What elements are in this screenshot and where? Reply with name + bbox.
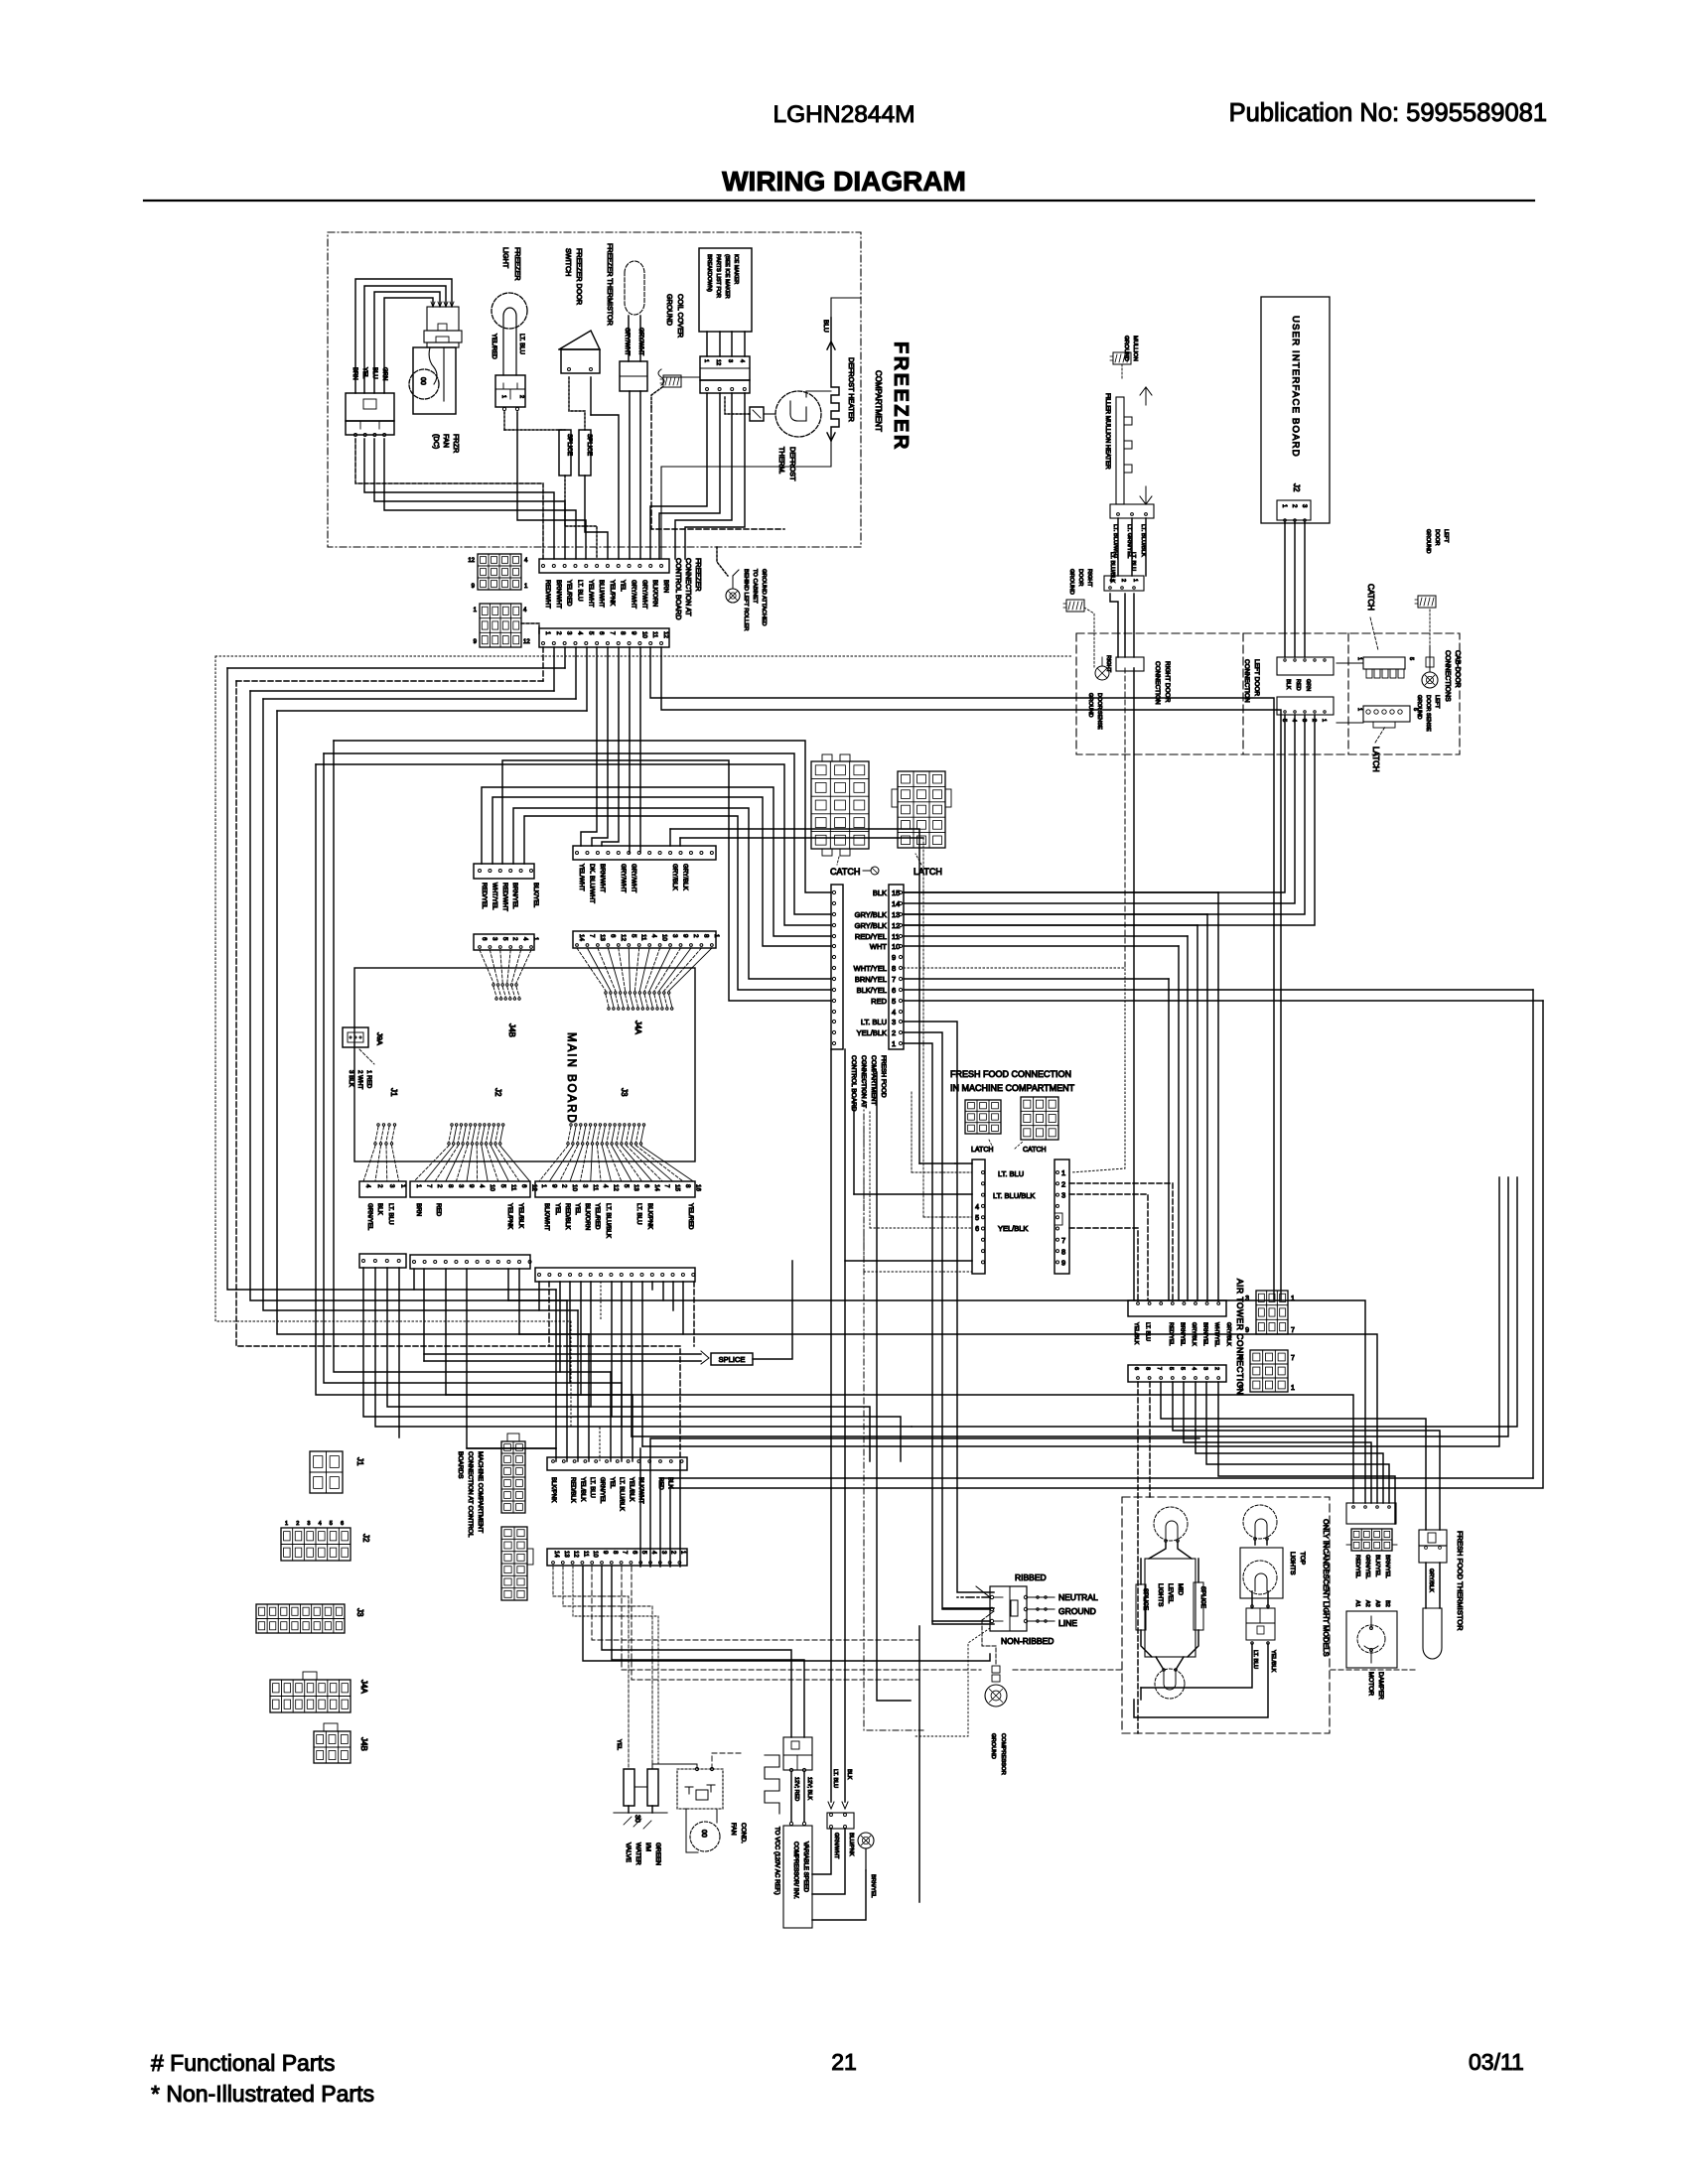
wires J1 lower strip down (363, 1268, 901, 1461)
J4A number strip (573, 931, 716, 948)
svg-text:ONLY INCANDESCENT LIGHT MODELS: ONLY INCANDESCENT LIGHT MODELS (1322, 1519, 1331, 1657)
damper motor box (1346, 1611, 1397, 1668)
svg-text:6: 6 (520, 1184, 527, 1188)
coil cover ground symbol (663, 375, 681, 387)
svg-text:RED/YEL: RED/YEL (1354, 1555, 1360, 1578)
J9A dashed link (359, 1049, 374, 1064)
mullion heater arrows (1140, 387, 1152, 395)
svg-text:13: 13 (892, 910, 900, 919)
svg-text:YEL: YEL (609, 1477, 615, 1489)
compressor 12V connector (783, 1737, 812, 1770)
svg-text:12: 12 (468, 558, 475, 564)
svg-text:RIGHT DOOR: RIGHT DOOR (1164, 661, 1171, 703)
svg-text:YEL/PNK: YEL/PNK (609, 580, 616, 607)
svg-text:LT. BLU/BLK: LT. BLU/BLK (605, 1203, 612, 1239)
svg-text:6: 6 (975, 1226, 979, 1233)
svg-text:CAB-DOOR: CAB-DOOR (1454, 650, 1461, 688)
svg-text:1: 1 (285, 1521, 288, 1527)
svg-text:YEL/WHT: YEL/WHT (587, 580, 594, 608)
svg-text:LEFT DOOR: LEFT DOOR (1253, 659, 1260, 696)
mid lamp top (1154, 1507, 1188, 1541)
freezer splice box 1 (559, 430, 571, 476)
svg-text:YEL/RED: YEL/RED (687, 1203, 694, 1230)
mullion ground dashed wire (1121, 364, 1123, 379)
svg-text:6: 6 (1133, 1367, 1139, 1370)
svg-text:2: 2 (518, 395, 524, 398)
svg-text:7: 7 (609, 631, 616, 635)
svg-text:GRN/YEL: GRN/YEL (599, 1477, 605, 1504)
svg-text:WHT/YEL: WHT/YEL (1213, 1322, 1219, 1346)
svg-text:2: 2 (511, 937, 518, 941)
svg-text:WHT/YEL: WHT/YEL (854, 964, 887, 973)
svg-text:THERM.: THERM. (777, 447, 786, 475)
svg-text:YEL: YEL (554, 1203, 561, 1215)
svg-text:7: 7 (892, 975, 896, 984)
svg-text:5: 5 (630, 934, 636, 938)
svg-text:BLU: BLU (822, 320, 829, 333)
svg-text:2: 2 (692, 934, 699, 938)
svg-text:GROUND: GROUND (1087, 693, 1093, 717)
svg-text:11: 11 (509, 1184, 516, 1191)
right-going band wires (912, 1177, 1517, 1427)
svg-text:3: 3 (1301, 719, 1307, 722)
machine compartment vertical grid connector A (501, 1441, 525, 1513)
svg-text:LIGHTS: LIGHTS (1157, 1583, 1164, 1607)
svg-text:SWITCH: SWITCH (564, 248, 573, 276)
svg-text:FRESH FOOD: FRESH FOOD (880, 1055, 887, 1098)
svg-text:9: 9 (1245, 1327, 1249, 1334)
svg-text:00: 00 (700, 1830, 707, 1838)
svg-text:11: 11 (892, 932, 900, 941)
svg-text:BRN/YEL: BRN/YEL (1179, 1322, 1185, 1346)
svg-text:BLK/ORN: BLK/ORN (584, 1203, 591, 1230)
wires freezer fan down to control strip (355, 439, 543, 559)
svg-text:14: 14 (653, 1184, 660, 1191)
svg-text:J4A: J4A (633, 1021, 642, 1034)
svg-text:J3: J3 (620, 1088, 629, 1097)
air tower grid connector upper (1256, 1291, 1288, 1334)
svg-text:BLK: BLK (873, 888, 887, 897)
svg-text:COIL COVER: COIL COVER (676, 294, 685, 338)
J4B header pins row 1 (492, 984, 494, 986)
arrowheads into compressor box (828, 1802, 834, 1809)
svg-text:9: 9 (1061, 1259, 1065, 1268)
svg-text:MAIN BOARD: MAIN BOARD (565, 1032, 577, 1125)
svg-text:RED/WHT: RED/WHT (544, 580, 551, 609)
J4B upper strip 6-pin (474, 864, 534, 879)
svg-text:IN MACHINE COMPARTMENT: IN MACHINE COMPARTMENT (950, 1083, 1075, 1093)
svg-text:1: 1 (400, 1184, 407, 1188)
svg-text:RED: RED (871, 997, 887, 1006)
svg-text:3: 3 (727, 359, 733, 362)
title rule (144, 200, 1534, 202)
svg-text:12: 12 (620, 934, 627, 941)
fresh food thermistor bulb (1423, 1608, 1442, 1659)
svg-text:NON-RIBBED: NON-RIBBED (1001, 1636, 1054, 1646)
wire from splice down area (853, 1102, 855, 1194)
svg-text:GRY/WHT: GRY/WHT (620, 864, 627, 892)
svg-text:13: 13 (599, 934, 606, 941)
fresh food pin3 pin2 down (904, 1022, 994, 1592)
svg-text:YEL/BLK: YEL/BLK (517, 1203, 524, 1229)
svg-text:8: 8 (447, 1184, 454, 1188)
svg-text:GRN/WHT: GRN/WHT (833, 1833, 839, 1859)
svg-text:CONNECTION: CONNECTION (1154, 661, 1161, 705)
svg-text:11: 11 (592, 1184, 599, 1191)
J1 lower strip (359, 1254, 406, 1268)
wire grid B to strip (521, 623, 539, 635)
svg-text:1: 1 (544, 631, 551, 635)
svg-text:GREEN: GREEN (654, 1843, 661, 1865)
wires below air tower (1137, 1382, 1139, 1733)
lights connector strip (1346, 1503, 1396, 1524)
left door connection upper block (1277, 657, 1334, 675)
svg-text:# Functional Parts: # Functional Parts (151, 2050, 335, 2076)
freezer fan connector lower part (346, 421, 394, 435)
freezer thermistor connector (620, 361, 647, 391)
svg-text:YEL: YEL (574, 1203, 581, 1215)
svg-text:BRN/YEL: BRN/YEL (855, 975, 887, 984)
svg-text:A3: A3 (1374, 1600, 1380, 1607)
svg-text:A1: A1 (1354, 1600, 1360, 1607)
svg-text:4: 4 (1291, 719, 1297, 722)
svg-text:J2: J2 (493, 1088, 502, 1097)
svg-text:8: 8 (1145, 1367, 1151, 1370)
svg-text:7: 7 (588, 934, 595, 938)
mullion heater connector (1110, 504, 1154, 518)
lights dashed box (1122, 1497, 1330, 1733)
svg-text:BLU/WHT: BLU/WHT (598, 580, 605, 608)
cab-door catch 5-pin connector (1363, 657, 1405, 669)
svg-text:SPLICE: SPLICE (1142, 1588, 1149, 1610)
user interface board box (1261, 297, 1330, 523)
svg-text:CONNECTION AT CONTROL: CONNECTION AT CONTROL (467, 1451, 474, 1538)
svg-text:1: 1 (1356, 708, 1362, 711)
wire long right y1499 (670, 1001, 1543, 1488)
svg-text:2: 2 (892, 1028, 896, 1037)
svg-text:SPLICE: SPLICE (566, 434, 573, 456)
mid lights bottom funnel (1156, 1657, 1164, 1670)
svg-text:GRY/BLK: GRY/BLK (671, 864, 678, 891)
J1 header pins (377, 1124, 379, 1126)
svg-text:LATCH: LATCH (1371, 747, 1380, 772)
svg-text:FREEZER DOOR: FREEZER DOOR (575, 248, 584, 305)
J1 header hooks (375, 1127, 378, 1142)
main board outline (354, 968, 695, 1161)
svg-text:2: 2 (561, 1184, 568, 1188)
svg-text:GRY/BLK: GRY/BLK (855, 921, 887, 930)
svg-text:J1: J1 (389, 1088, 398, 1097)
cab-door divider 1 (1242, 633, 1244, 754)
svg-text:BLU/PNK: BLU/PNK (848, 1833, 854, 1856)
svg-text:J4B: J4B (507, 1024, 516, 1037)
freezer light circle (492, 293, 527, 329)
svg-text:6: 6 (643, 1184, 650, 1188)
svg-text:11: 11 (582, 1551, 588, 1558)
J3 header pins (570, 1124, 572, 1126)
svg-text:TOP: TOP (1299, 1552, 1306, 1565)
machine compartment J4A grid (270, 1680, 351, 1712)
svg-text:YEL/PNK: YEL/PNK (506, 1203, 513, 1230)
splice output wire (753, 1261, 792, 1359)
left bus dotted wire (215, 655, 1072, 657)
svg-text:5: 5 (1179, 1367, 1185, 1370)
svg-text:7: 7 (1291, 1327, 1295, 1334)
machine connection number strip (547, 1549, 687, 1566)
svg-text:BLK: BLK (376, 1203, 383, 1216)
svg-text:RED/YEL: RED/YEL (1168, 1322, 1174, 1346)
svg-text:BREAKDOWN): BREAKDOWN) (706, 254, 712, 292)
lights grid connector (1351, 1529, 1392, 1551)
svg-text:BLK: BLK (846, 1769, 852, 1780)
fresh food machine latch grid (965, 1100, 1001, 1134)
svg-text:8: 8 (1061, 1247, 1065, 1256)
svg-text:BLK/YEL: BLK/YEL (532, 883, 539, 908)
svg-text:LT. BLU: LT. BLU (1145, 1322, 1151, 1341)
svg-text:00: 00 (419, 377, 426, 385)
svg-text:6: 6 (481, 937, 488, 941)
machine compartment J2 grid (281, 1528, 351, 1561)
left bus staircase wire 7 (316, 764, 633, 1395)
svg-text:15: 15 (892, 888, 900, 897)
wires compressor box bottom (812, 1829, 831, 1874)
svg-text:J9A: J9A (375, 1032, 384, 1045)
J4B number strip (474, 934, 534, 950)
svg-text:14: 14 (578, 934, 585, 941)
svg-text:3: 3 (566, 631, 573, 635)
svg-text:BLK/ORN: BLK/ORN (651, 580, 658, 607)
air tower lower strip (1128, 1365, 1226, 1382)
svg-text:CONTROL BOARD: CONTROL BOARD (674, 558, 683, 619)
cond fan motor circle (690, 1822, 720, 1851)
wires 3-pin connector down (1110, 594, 1118, 657)
svg-text:RED: RED (1295, 679, 1301, 691)
svg-text:COMPARTMENT: COMPARTMENT (874, 370, 883, 432)
svg-text:RIBBED: RIBBED (1015, 1572, 1047, 1582)
svg-text:A2: A2 (1364, 1600, 1370, 1607)
freezer light connector (495, 375, 525, 407)
splice left box (1136, 1584, 1146, 1630)
svg-text:2: 2 (1061, 1179, 1065, 1188)
svg-text:GRN/YEL: GRN/YEL (1364, 1555, 1370, 1578)
svg-text:LT. BLU: LT. BLU (861, 1018, 887, 1026)
svg-text:5: 5 (587, 631, 594, 635)
J2 number strip (410, 1181, 530, 1197)
svg-text:LT. BLU: LT. BLU (832, 1769, 838, 1788)
svg-text:3: 3 (491, 937, 497, 941)
plug dotted curl wire (915, 1628, 990, 1736)
svg-text:COMPRESSOR: COMPRESSOR (1000, 1733, 1006, 1775)
svg-text:Publication No: 5995589081: Publication No: 5995589081 (1229, 99, 1547, 127)
left bus staircase wire 5 (334, 741, 611, 1372)
fresh food dashed line pin8 (904, 968, 1125, 1172)
svg-text:RED/WHT: RED/WHT (501, 883, 508, 911)
svg-text:YEL/BLK: YEL/BLK (857, 1028, 887, 1037)
svg-text:BEHIND LEFT ROLLER: BEHIND LEFT ROLLER (743, 569, 749, 630)
svg-text:16: 16 (694, 1184, 701, 1191)
J2 header hooks (449, 1127, 452, 1142)
3-pin connector above right door box (1104, 576, 1144, 591)
svg-text:4: 4 (479, 1184, 486, 1188)
svg-text:13: 13 (633, 1184, 639, 1191)
svg-text:12V; BLK: 12V; BLK (806, 1777, 812, 1800)
svg-text:DOOR SENSE: DOOR SENSE (1425, 695, 1431, 732)
svg-text:DEFROST HEATER: DEFROST HEATER (847, 357, 856, 422)
catch grid connector (811, 761, 869, 849)
J2 fan-out (414, 1146, 449, 1181)
J3 lower strip (535, 1268, 695, 1282)
svg-text:4: 4 (892, 1008, 896, 1017)
J3 header hooks (568, 1127, 571, 1142)
cab-door latch connector (1363, 706, 1410, 722)
svg-text:9: 9 (892, 953, 896, 962)
J4A upper strip 14-pin (573, 846, 716, 860)
wires J3 lower strip down (538, 1282, 540, 1310)
svg-text:COMPARTMENT: COMPARTMENT (870, 1055, 877, 1105)
mid lights wiring top funnel (1149, 1541, 1166, 1559)
svg-text:J2: J2 (361, 1534, 370, 1543)
svg-text:10: 10 (661, 934, 668, 941)
svg-text:GRN/YEL: GRN/YEL (366, 1203, 373, 1231)
svg-text:LEVEL: LEVEL (1167, 1583, 1174, 1604)
svg-text:GRY/BLK: GRY/BLK (1428, 1569, 1434, 1592)
vertical wires center bottom (830, 1049, 832, 1802)
wires freezer thermistor (628, 316, 630, 361)
J2 header pins (451, 1124, 453, 1126)
cond fan box dotted (677, 1769, 723, 1809)
svg-text:WIRING DIAGRAM: WIRING DIAGRAM (722, 166, 966, 197)
svg-text:12: 12 (531, 1184, 538, 1191)
svg-text:DOOR SENSE: DOOR SENSE (1096, 693, 1102, 730)
cond fan top wires (695, 1767, 698, 1770)
defrost heater arrows (827, 341, 835, 349)
cab-door connections dashed box (1076, 633, 1460, 754)
svg-text:12: 12 (523, 639, 530, 645)
svg-text:3: 3 (671, 934, 678, 938)
splice right box (1194, 1582, 1203, 1630)
svg-text:12: 12 (612, 1184, 619, 1191)
plug pins (990, 1595, 993, 1598)
svg-text:9: 9 (550, 1184, 557, 1188)
svg-text:CONNECTION AT: CONNECTION AT (684, 558, 693, 616)
top lights lamp2 (1243, 1561, 1277, 1594)
svg-text:SPLICE: SPLICE (719, 1355, 746, 1364)
svg-text:BRN/YEL: BRN/YEL (1384, 1555, 1390, 1578)
svg-text:5: 5 (1281, 719, 1287, 722)
misc long verticals (922, 838, 924, 1217)
fresh food lines to right (904, 891, 1218, 893)
filler mullion heater element (1116, 397, 1124, 504)
svg-text:GRN: GRN (1305, 679, 1311, 691)
svg-text:YEL/WHT: YEL/WHT (578, 864, 585, 891)
wires freezer door switch down (569, 377, 585, 430)
svg-text:2: 2 (1311, 719, 1317, 722)
svg-text:4: 4 (364, 1184, 371, 1188)
svg-text:11: 11 (640, 934, 647, 941)
svg-text:1: 1 (703, 359, 709, 362)
svg-text:21: 21 (831, 2049, 857, 2075)
svg-text:DEFROST: DEFROST (788, 447, 797, 481)
svg-text:MACHINE COMPARTMENT: MACHINE COMPARTMENT (477, 1451, 484, 1533)
svg-text:NEUTRAL: NEUTRAL (1058, 1592, 1098, 1602)
fresh food machine right strip (1055, 1160, 1069, 1274)
svg-text:CATCH: CATCH (830, 867, 860, 877)
svg-text:BLK: BLK (1285, 679, 1291, 690)
svg-text:1: 1 (500, 395, 506, 398)
svg-text:1: 1 (713, 934, 720, 938)
svg-text:BLK/YEL: BLK/YEL (1374, 1555, 1380, 1576)
wires cab-door internal (1336, 662, 1363, 664)
wires 12V to compressor (790, 1772, 792, 1822)
fan motor s-curve wire (429, 347, 437, 384)
to vcc heater zigzag (765, 1755, 779, 1814)
svg-text:14: 14 (553, 1551, 559, 1558)
svg-text:YEL/RED: YEL/RED (491, 334, 496, 359)
svg-text:GRY/WHT: GRY/WHT (631, 580, 637, 609)
left bus wire 3 (263, 698, 576, 700)
svg-text:2: 2 (555, 631, 562, 635)
svg-text:(DC): (DC) (432, 434, 441, 449)
fresh food machine catch grid (1021, 1097, 1058, 1140)
12-pin grid connector B (480, 604, 521, 647)
svg-text:4: 4 (650, 934, 657, 938)
svg-text:PARTS LIST FOR: PARTS LIST FOR (715, 254, 721, 298)
svg-text:SPLICE: SPLICE (586, 434, 593, 456)
corner wires into 14-pin strip (669, 829, 671, 846)
svg-text:J3: J3 (355, 1608, 364, 1617)
fresh food thermistor connector (1419, 1530, 1447, 1546)
svg-text:1 RED: 1 RED (365, 1070, 372, 1089)
svg-text:6: 6 (609, 934, 616, 938)
left door connection lower block (1277, 697, 1334, 715)
svg-text:1: 1 (415, 1184, 422, 1188)
svg-text:CONNECTIONS: CONNECTIONS (1444, 650, 1451, 702)
svg-text:3: 3 (892, 1018, 896, 1026)
svg-text:FAN: FAN (730, 1823, 737, 1836)
wires freezer strip pins down (542, 647, 544, 681)
svg-text:5: 5 (975, 1215, 979, 1222)
svg-text:YEL/BLK: YEL/BLK (998, 1224, 1028, 1233)
svg-text:LGHN2844M: LGHN2844M (774, 101, 915, 128)
svg-text:MOTOR: MOTOR (1367, 1672, 1374, 1696)
svg-text:BRN/YEL: BRN/YEL (1202, 1322, 1208, 1346)
left bus staircase wire 6 (324, 753, 622, 1383)
svg-text:DOOR: DOOR (1077, 569, 1083, 586)
svg-text:YEL/BLK: YEL/BLK (1270, 1650, 1276, 1673)
svg-text:TO VCC (120V AC REF.): TO VCC (120V AC REF.) (774, 1827, 780, 1895)
svg-text:GRY/BLK: GRY/BLK (1225, 1322, 1231, 1346)
svg-text:BRN/YEL: BRN/YEL (511, 883, 518, 909)
plug left wires (957, 1596, 990, 1598)
svg-text:5: 5 (623, 1184, 630, 1188)
wires below right door block (1124, 668, 1126, 968)
svg-text:J2: J2 (1292, 483, 1301, 492)
svg-text:5: 5 (1168, 1367, 1174, 1370)
svg-text:RIGHT: RIGHT (1105, 655, 1111, 673)
svg-text:5: 5 (1408, 657, 1414, 660)
svg-text:4: 4 (1191, 1367, 1196, 1370)
svg-text:RIGHT: RIGHT (1086, 569, 1092, 587)
svg-text:4: 4 (602, 1184, 609, 1188)
mullion ground symbol (1113, 352, 1131, 364)
svg-text:2: 2 (376, 1184, 383, 1188)
svg-text:3: 3 (307, 1521, 310, 1527)
svg-text:8: 8 (620, 631, 627, 635)
ground lug attached to cabinet (726, 589, 740, 603)
svg-text:2: 2 (1120, 579, 1126, 582)
svg-text:3: 3 (457, 1184, 464, 1188)
svg-text:3: 3 (581, 1184, 588, 1188)
